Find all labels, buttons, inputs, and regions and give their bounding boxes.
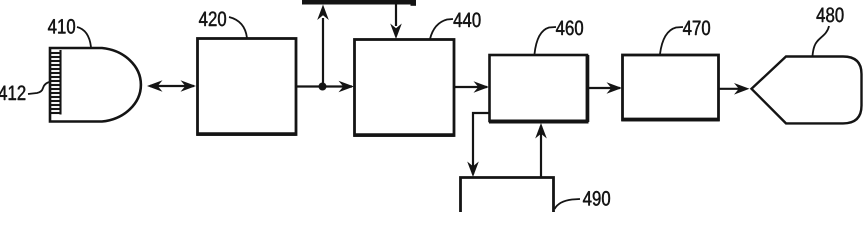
heavy bottom edge of 440 xyxy=(354,133,454,136)
arrowhead up into 460 xyxy=(535,123,547,139)
bus bar end tick xyxy=(411,0,417,6)
wire 420 to 440 xyxy=(297,85,353,87)
label 440 xyxy=(454,13,481,28)
wire 470 to 480 xyxy=(719,88,746,90)
wire 460 to 470 xyxy=(588,87,620,89)
leader line for 490 xyxy=(555,199,581,209)
box 440 xyxy=(355,40,455,136)
arrowhead into 440 xyxy=(339,81,355,93)
label 460 xyxy=(556,21,583,36)
arrowhead into 460 xyxy=(474,81,490,93)
leader line for 410 xyxy=(77,27,91,47)
label 480 xyxy=(817,8,844,23)
wire 440 to 460 xyxy=(455,86,488,88)
wire 490 up to 460 xyxy=(540,126,542,177)
box 460 xyxy=(490,55,588,121)
arrowhead up at bus bar xyxy=(317,5,329,21)
leader line for 440 xyxy=(430,19,453,39)
label 420 xyxy=(199,12,226,27)
heavy bottom edge of 460 xyxy=(489,120,589,124)
bidirectional wire between 410 and 420 xyxy=(150,85,194,87)
heavy right edge of 460 xyxy=(586,55,590,122)
box 490 (cropped at bottom) xyxy=(461,178,554,216)
wire down from bus bar to 440 xyxy=(395,4,397,26)
leader line for 420 xyxy=(229,17,247,38)
pointed block 480 xyxy=(752,57,862,124)
arrowhead down into 490 xyxy=(467,162,479,178)
box 420 xyxy=(198,39,297,135)
leader line for 480 xyxy=(813,26,830,56)
bus bar (cropped at top) xyxy=(302,0,412,5)
leader line for 470 xyxy=(660,27,683,54)
arrowhead into 470 xyxy=(607,82,623,94)
arrowhead down into 440 xyxy=(390,24,402,40)
leader line for 460 xyxy=(535,27,557,54)
heavy bottom edge of 470 xyxy=(622,118,719,122)
label 470 xyxy=(683,21,710,36)
grating 412 (comb/ladder on left edge of 410) xyxy=(50,50,61,115)
leader line for 412 xyxy=(28,82,49,94)
arrowhead right at 420 xyxy=(181,80,197,92)
junction dot xyxy=(319,83,327,91)
label 490 xyxy=(583,191,610,206)
label 410 xyxy=(48,19,75,34)
label 412 xyxy=(0,86,25,101)
arrowhead into 480 xyxy=(734,83,750,95)
transducer 410 body outline xyxy=(50,48,141,122)
wire up from junction to bus bar xyxy=(322,18,324,87)
arrowhead left at 410 xyxy=(147,80,163,92)
box 470 xyxy=(623,55,719,120)
feedback wire 460 to 490 (left, down) xyxy=(473,113,489,174)
heavy bottom edge of 420 xyxy=(197,132,296,136)
